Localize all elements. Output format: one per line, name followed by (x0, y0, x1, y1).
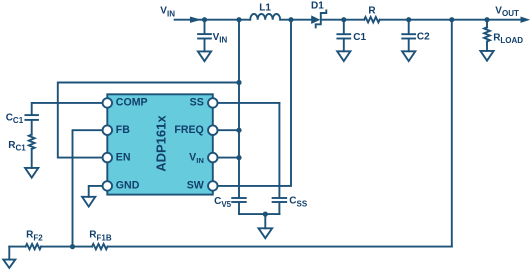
svg-text:R: R (368, 5, 376, 16)
ground under C1 (337, 51, 350, 61)
ground under C2 (402, 51, 415, 61)
capacitor CV5 (232, 198, 246, 214)
ground under CV5/CSS (259, 214, 273, 238)
wire feedback right riser (451, 20, 453, 247)
svg-text:SW: SW (187, 180, 204, 192)
pin FREQ circle (208, 125, 218, 135)
wire COMP to CC1 (32, 103, 103, 114)
svg-text:RC1: RC1 (8, 140, 26, 153)
svg-text:VOUT: VOUT (495, 5, 519, 18)
svg-text:C1: C1 (353, 32, 366, 43)
svg-text:CC1: CC1 (6, 112, 24, 125)
diode D1 (311, 10, 326, 27)
svg-text:CV5: CV5 (214, 196, 232, 209)
svg-text:EN: EN (116, 151, 131, 163)
node VIN pin to VIN rail (236, 155, 241, 160)
node feedback divider (70, 244, 75, 249)
wire top rail VIN to L1 (175, 19, 251, 21)
node FREQ to VIN rail (236, 128, 241, 133)
node C1 (341, 17, 346, 22)
wire bottom rail right of RF1B (108, 246, 452, 248)
wire RC1 to gnd (31, 149, 33, 168)
capacitor C2 (402, 20, 415, 52)
resistor RLOAD (484, 20, 490, 51)
svg-text:D1: D1 (311, 0, 324, 11)
wire FREQ stub (217, 129, 239, 131)
capacitor VIN input bypass (198, 20, 211, 52)
svg-text:FREQ: FREQ (174, 124, 203, 136)
svg-text:RF2: RF2 (26, 230, 43, 243)
op-amp U1 ADP161x IC body (107, 94, 213, 194)
pin COMP circle (103, 98, 113, 108)
resistor RF2 (26, 244, 42, 249)
wire L1 to D1 (280, 19, 311, 21)
svg-text:FB: FB (116, 124, 130, 136)
wire EN to VIN rail (58, 83, 239, 158)
wire GND pin to gnd (89, 186, 103, 197)
pin VIN circle (208, 153, 218, 163)
svg-text:COMP: COMP (116, 97, 148, 109)
capacitor C1 (337, 20, 350, 52)
resistor RF1B (92, 244, 108, 249)
pin SS circle (208, 98, 218, 108)
inductor L1 (250, 14, 280, 20)
node input cap tap (202, 17, 207, 22)
pin FB circle (103, 125, 113, 135)
svg-text:GND: GND (116, 180, 140, 192)
svg-text:VIN: VIN (160, 6, 175, 19)
node Rload (484, 17, 489, 22)
pin GND circle (103, 181, 113, 191)
capacitor CC1 (25, 115, 38, 135)
svg-text:RF1B: RF1B (89, 230, 112, 243)
ground under input cap (198, 51, 211, 61)
wire R to Vout (380, 19, 521, 21)
svg-text:L1: L1 (259, 2, 271, 13)
svg-text:ADP161x: ADP161x (153, 115, 168, 172)
ground bottom left (3, 247, 15, 268)
svg-text:C2: C2 (417, 32, 430, 43)
resistor RC1 (29, 135, 35, 149)
wire FB to feedback divider (73, 130, 103, 246)
wire VIN rail riser down to CV5 (238, 20, 240, 197)
Vin source arrow (190, 17, 201, 23)
Vout arrow (521, 17, 531, 23)
wire cap commons (239, 213, 279, 215)
svg-text:RLOAD: RLOAD (493, 32, 523, 45)
node C2 (406, 17, 411, 22)
node EN to VIN rail (236, 80, 241, 85)
wire SS stub to CSS (217, 102, 279, 104)
svg-text:SS: SS (190, 97, 204, 109)
node caps ground (263, 212, 268, 217)
ground under RC1 (25, 168, 38, 178)
resistor R (364, 17, 379, 22)
wire D1 to R (322, 19, 365, 21)
wire VIN pin stub (217, 157, 239, 159)
wire bottom rail left segments (9, 246, 25, 248)
ground under RLOAD (480, 51, 493, 61)
node L1/D1/SW (288, 17, 293, 22)
pin EN circle (103, 153, 113, 163)
node VIN rail riser (236, 17, 241, 22)
svg-text:CSS: CSS (289, 196, 308, 209)
capacitor CSS (273, 103, 287, 214)
node feedback tap (449, 17, 454, 22)
ground under GND pin (82, 197, 95, 207)
svg-text:VIN: VIN (213, 32, 228, 45)
wire SW to L1/D1 node (217, 20, 291, 186)
pin SW circle (208, 181, 218, 191)
